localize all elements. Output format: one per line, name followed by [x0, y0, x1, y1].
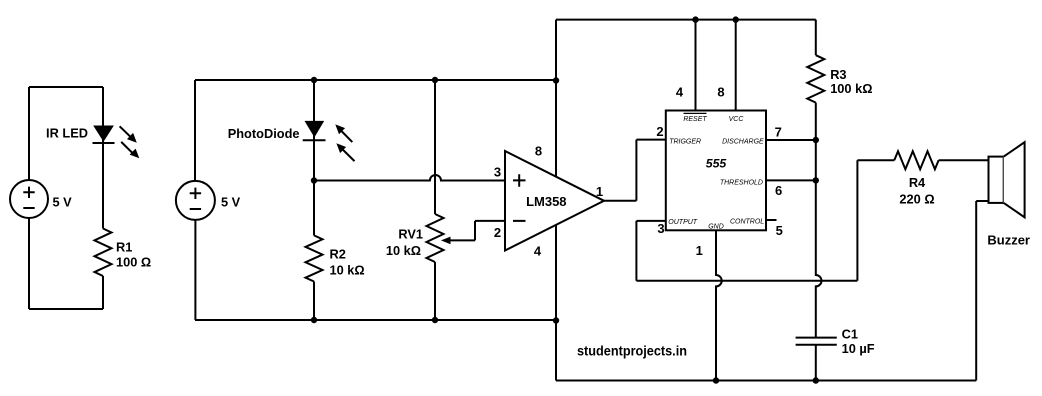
svg-text:R4: R4 [909, 175, 926, 190]
resistor R3 [807, 55, 824, 102]
svg-text:GND: GND [708, 223, 724, 230]
svg-text:DISCHARGE: DISCHARGE [722, 139, 764, 146]
svg-text:R2: R2 [330, 246, 346, 261]
svg-text:555: 555 [706, 156, 727, 170]
svg-text:R3: R3 [830, 67, 846, 82]
svg-text:3: 3 [657, 221, 664, 236]
svg-text:Buzzer: Buzzer [987, 233, 1030, 248]
555 label RESET with overline [683, 113, 707, 122]
wire bottom rail 555 [556, 380, 976, 382]
wire op-amp V- down to bottom [555, 226, 557, 381]
voltage source V1 5V [10, 180, 48, 218]
svg-text:4: 4 [676, 85, 684, 100]
svg-text:RESET: RESET [683, 116, 707, 123]
voltage source V2 5V [176, 181, 215, 220]
svg-text:6: 6 [775, 183, 782, 198]
node bottom rail RV1 [432, 317, 438, 323]
svg-text:IR LED: IR LED [46, 125, 88, 140]
wire left loop right middle [102, 143, 104, 229]
node top rail middle V+ [553, 77, 559, 83]
svg-text:R1: R1 [116, 239, 132, 254]
op-amp U1 LM358 [505, 151, 604, 251]
svg-text:LM358: LM358 [526, 194, 566, 209]
node top rail middle photodiode [311, 77, 317, 83]
svg-text:TRIGGER: TRIGGER [669, 139, 701, 146]
wire left loop right upper [102, 87, 104, 143]
svg-text:C1: C1 [842, 326, 858, 341]
wire noninverting input with hop over RV1 [314, 175, 505, 181]
svg-text:RV1: RV1 [398, 226, 423, 241]
wire middle bottom rail [195, 319, 556, 321]
wire middle top rail [195, 79, 556, 81]
svg-text:5: 5 [776, 223, 783, 238]
svg-text:5 V: 5 V [221, 194, 241, 209]
wire photodiode branch lower [313, 140, 315, 235]
node threshold junction [813, 177, 819, 183]
wire discharge pin 7 [766, 139, 816, 141]
node bottom rail R2 [311, 317, 317, 323]
wire control pin 5 stub [766, 219, 777, 221]
svg-text:2: 2 [656, 124, 663, 139]
svg-text:10 µF: 10 µF [842, 341, 875, 356]
IC U2 555 body [666, 111, 766, 231]
wire op-amp output to trigger [604, 140, 666, 201]
wire vcc pin 8 [735, 20, 737, 111]
wire middle left upper [194, 80, 196, 181]
wire threshold net vertical with hop [816, 103, 822, 338]
wire R3 from top rail [815, 20, 817, 56]
wire 555 top rail [556, 19, 816, 21]
wire reset pin 4 [695, 20, 697, 111]
wire RV1 branch upper [434, 80, 436, 214]
svg-text:studentprojects.in: studentprojects.in [577, 343, 687, 359]
wire threshold pin 6 [766, 179, 816, 181]
buzzer LS1 [989, 142, 1025, 217]
wire middle left lower [194, 220, 196, 320]
svg-text:10 kΩ: 10 kΩ [386, 243, 421, 258]
svg-text:100 kΩ: 100 kΩ [830, 81, 872, 96]
svg-text:3: 3 [494, 165, 501, 180]
svg-text:4: 4 [534, 244, 542, 259]
potentiometer RV1 [427, 214, 444, 262]
wire gnd pin 1 with hop [716, 230, 722, 380]
node bottom rail C1 [813, 377, 819, 383]
photodiode arrow 1 [335, 124, 352, 142]
diode D1 IR LED [93, 126, 115, 144]
resistor R1 [95, 229, 112, 277]
node top rail reset [692, 16, 698, 22]
IR LED emission arrow 1 [120, 126, 137, 142]
wire output horizontal run [636, 280, 857, 282]
wire buzzer return [976, 201, 988, 381]
wire left loop bottom [29, 308, 103, 310]
wire R4 to buzzer [939, 159, 989, 161]
resistor R4 [894, 151, 938, 169]
svg-text:8: 8 [535, 144, 542, 159]
svg-text:2: 2 [494, 225, 501, 240]
photodiode D2 [303, 121, 326, 140]
IR LED emission arrow 2 [121, 142, 139, 158]
svg-text:PhotoDiode: PhotoDiode [228, 126, 300, 141]
node top rail vcc [733, 16, 739, 22]
wire R2 to bottom rail [313, 282, 315, 321]
wire photodiode branch upper [313, 80, 315, 143]
svg-text:1: 1 [696, 243, 703, 258]
wire RV1 wiper to inverting input [475, 221, 505, 241]
wire op-amp V+ from top rail [555, 20, 557, 177]
svg-text:5 V: 5 V [53, 194, 73, 209]
svg-text:1: 1 [596, 184, 603, 199]
svg-text:OUTPUT: OUTPUT [668, 219, 698, 226]
svg-text:THRESHOLD: THRESHOLD [720, 179, 763, 186]
svg-text:100 Ω: 100 Ω [116, 254, 151, 269]
wire 555 output pin 3 [636, 221, 665, 281]
capacitor C1 [796, 338, 837, 381]
svg-text:CONTROL: CONTROL [730, 219, 764, 226]
RV1 wiper arrow [441, 237, 475, 245]
wire left loop left lower [28, 218, 30, 309]
resistor R2 [306, 235, 323, 281]
svg-text:10 kΩ: 10 kΩ [330, 263, 365, 278]
wire left loop right lower [102, 276, 104, 309]
node discharge junction [813, 137, 819, 143]
node bottom rail gnd [713, 377, 719, 383]
wire output up to R4 [857, 160, 894, 281]
photodiode arrow 2 [336, 143, 354, 161]
wire left loop top [29, 86, 103, 88]
svg-text:VCC: VCC [729, 116, 745, 123]
node bottom rail V- [553, 317, 559, 323]
wire left loop left upper [28, 87, 30, 180]
node top rail middle RV1 [432, 77, 438, 83]
svg-text:220 Ω: 220 Ω [899, 191, 934, 206]
wire RV1 branch lower [434, 262, 436, 320]
svg-text:8: 8 [717, 85, 724, 100]
svg-text:7: 7 [775, 124, 782, 139]
node photodiode junction [311, 177, 317, 183]
